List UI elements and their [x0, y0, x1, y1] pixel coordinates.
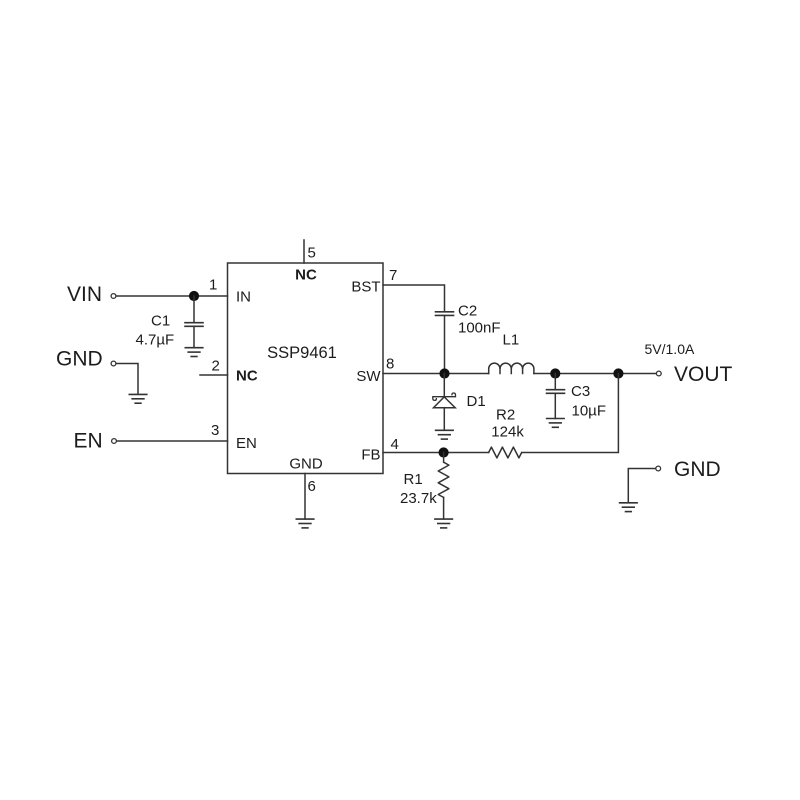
svg-text:C1: C1 — [151, 312, 170, 329]
capacitor C2 — [436, 312, 454, 316]
diode D1 schottky cathode bar — [433, 393, 456, 400]
wire EN to pin 3 — [117, 440, 228, 442]
svg-text:L1: L1 — [503, 331, 520, 348]
svg-text:BST: BST — [351, 278, 380, 295]
wire C1 to ground — [193, 326, 195, 347]
ground below GND right — [620, 503, 638, 512]
svg-text:C2: C2 — [458, 303, 477, 320]
svg-text:7: 7 — [389, 267, 397, 284]
terminal GND left — [111, 361, 116, 366]
svg-text:23.7k: 23.7k — [400, 490, 437, 507]
wire C3 node down — [554, 374, 556, 390]
svg-text:2: 2 — [212, 358, 220, 375]
resistor R1 — [438, 462, 449, 497]
inductor L1 dips — [500, 369, 523, 374]
inductor L1 — [489, 363, 534, 373]
wire SW node to D1 — [443, 374, 445, 397]
svg-text:5V/1.0A: 5V/1.0A — [645, 341, 695, 357]
wire FB node to R1 — [443, 453, 445, 463]
svg-text:D1: D1 — [467, 393, 486, 410]
svg-text:4: 4 — [391, 436, 399, 453]
svg-text:VIN: VIN — [67, 283, 102, 306]
capacitor C3 — [547, 390, 565, 394]
pin 2 NC stub — [200, 374, 228, 376]
terminal EN — [112, 439, 117, 444]
ground below GND terminal — [129, 394, 147, 403]
svg-text:FB: FB — [361, 446, 380, 463]
node SW junction — [439, 368, 449, 378]
diode D1 triangle — [434, 397, 456, 408]
svg-text:C3: C3 — [571, 383, 590, 400]
svg-text:SSP9461: SSP9461 — [267, 344, 337, 362]
wire node to C1 — [193, 296, 195, 323]
wire D1 to ground — [443, 408, 445, 431]
terminal VIN — [111, 294, 116, 299]
ground below R1 — [435, 519, 453, 528]
pin 5 NC stub — [303, 240, 305, 263]
svg-text:EN: EN — [74, 430, 103, 453]
svg-text:124k: 124k — [491, 423, 524, 440]
svg-text:6: 6 — [308, 478, 316, 495]
ground below C1 — [185, 348, 203, 357]
node FB junction — [439, 447, 449, 457]
svg-text:GND: GND — [56, 348, 103, 371]
wire R1 to ground — [443, 497, 445, 519]
resistor R2 — [489, 447, 522, 458]
svg-text:GND: GND — [674, 458, 721, 481]
wire C2 to SW node — [444, 315, 446, 373]
pin 6 GND stub — [304, 474, 306, 520]
ground below pin 6 — [296, 519, 314, 528]
IC U1 SSP9461 body — [228, 263, 384, 474]
wire pin 7 BST to C2 — [383, 285, 445, 312]
node VIN/C1 junction — [189, 291, 199, 301]
ground below D1 — [436, 430, 454, 439]
svg-text:5: 5 — [308, 245, 316, 262]
svg-text:3: 3 — [211, 422, 219, 439]
svg-text:10µF: 10µF — [572, 402, 607, 419]
svg-text:R2: R2 — [496, 406, 515, 423]
wire pin 8 SW to L1 — [383, 373, 489, 375]
wire pin 4 FB to R2 — [383, 452, 489, 454]
terminal VOUT — [656, 371, 661, 376]
svg-text:NC: NC — [236, 367, 258, 384]
wire VIN to pin 1 IN — [116, 295, 227, 297]
wire R2 to VOUT branch — [522, 374, 619, 453]
wire L1 to VOUT terminal — [534, 373, 656, 375]
node VOUT branch junction — [613, 368, 623, 378]
ground below C3 — [547, 419, 565, 428]
wire C3 to ground — [554, 393, 556, 418]
svg-text:4.7µF: 4.7µF — [136, 331, 175, 348]
wire GND terminal elbow — [116, 364, 138, 395]
svg-text:1: 1 — [209, 277, 217, 294]
svg-text:VOUT: VOUT — [674, 363, 733, 386]
svg-text:NC: NC — [295, 266, 317, 283]
node C3 junction — [550, 368, 560, 378]
svg-text:100nF: 100nF — [458, 320, 501, 337]
svg-text:EN: EN — [236, 435, 257, 452]
svg-text:IN: IN — [236, 288, 251, 305]
wire GND right elbow — [628, 469, 655, 503]
svg-text:GND: GND — [289, 455, 323, 472]
svg-text:SW: SW — [356, 368, 381, 385]
svg-text:R1: R1 — [404, 471, 423, 488]
terminal GND right — [656, 466, 661, 471]
svg-text:8: 8 — [386, 356, 394, 373]
capacitor C1 — [185, 323, 203, 327]
